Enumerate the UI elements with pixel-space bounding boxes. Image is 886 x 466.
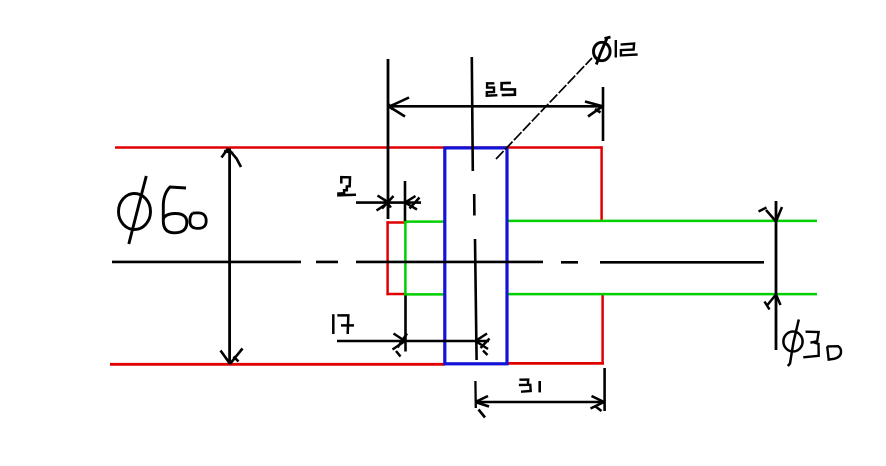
dimension line Ø30 vertical xyxy=(775,201,778,350)
dimension line Ø60 vertical xyxy=(228,149,231,364)
text 31 digit 3 xyxy=(519,380,531,392)
arrow 2 left (tip at 388) xyxy=(377,196,394,211)
wire green bottom left xyxy=(404,293,445,296)
hole outline blue Ø12 rectangle xyxy=(445,148,507,364)
text 55 second digit xyxy=(502,83,515,95)
text 31 digit 1 xyxy=(538,381,541,392)
body outline red: top edge of Ø60 cylinder xyxy=(110,146,604,364)
wire red right upper xyxy=(600,146,603,220)
dimension line 2 xyxy=(356,201,421,204)
text Ø12 digit 1 xyxy=(615,40,617,58)
wire green left vertical xyxy=(404,221,407,295)
arrow Ø60 top xyxy=(222,149,242,168)
dimension line 31 xyxy=(475,401,604,404)
shaft outline green Ø30 xyxy=(404,221,817,295)
centerline horizontal (dash-dot) xyxy=(112,261,764,264)
extension line at x=603 xyxy=(602,87,605,141)
text 2 (small dim) xyxy=(338,177,356,195)
dimension line 17 xyxy=(337,340,489,343)
arrow Ø30 bottom (tip at green 294) xyxy=(765,295,781,310)
text Ø30 small D xyxy=(827,346,841,359)
extension line at x=405 lower xyxy=(404,296,407,352)
leader line Ø12 (sketchy diagonal) xyxy=(496,58,592,159)
arrow 55 left xyxy=(388,98,409,117)
wire red right lower xyxy=(601,295,604,365)
arrow Ø30 top (tip at green 221) xyxy=(759,207,783,222)
text 55 first digit xyxy=(487,83,498,95)
wire red bottom right xyxy=(507,362,604,365)
text Ø60 small o xyxy=(190,213,206,229)
arrow 31 left xyxy=(475,396,489,418)
wire red step top xyxy=(386,221,405,224)
wire red step bottom xyxy=(386,293,405,296)
wire green bottom right xyxy=(507,293,818,296)
wire red step left xyxy=(386,221,389,295)
text Ø30 digit 3 xyxy=(803,332,818,358)
wire red bottom left xyxy=(110,363,445,366)
centerline vertical of hole (dash-dot) xyxy=(472,57,477,408)
wire red top xyxy=(115,146,603,149)
text Ø12 digit 2 xyxy=(621,44,638,56)
dimension line 55 xyxy=(388,105,603,108)
text Ø60 phi xyxy=(119,176,151,244)
arrow 17 right-tip (at 405) xyxy=(393,334,408,357)
extension line at x=388 xyxy=(387,59,390,219)
text Ø30 phi xyxy=(783,320,802,367)
extension line 31 right xyxy=(603,368,606,411)
wire green top left xyxy=(404,220,445,223)
arrow 2 right (tip at 405) xyxy=(405,196,420,210)
arrow 31 right xyxy=(591,396,605,411)
arrow 17 left-tip (at 476) xyxy=(476,334,490,356)
text 17 digit 1 xyxy=(332,314,335,334)
text Ø12 phi xyxy=(594,37,611,65)
arrow 55 right xyxy=(585,102,603,117)
wire green top right xyxy=(507,220,818,223)
extension line at x=405 upper xyxy=(404,181,407,221)
text Ø60 digit 6 xyxy=(163,187,187,233)
text 17 digit 7 xyxy=(337,315,354,334)
arrow Ø60 bottom xyxy=(221,349,243,364)
